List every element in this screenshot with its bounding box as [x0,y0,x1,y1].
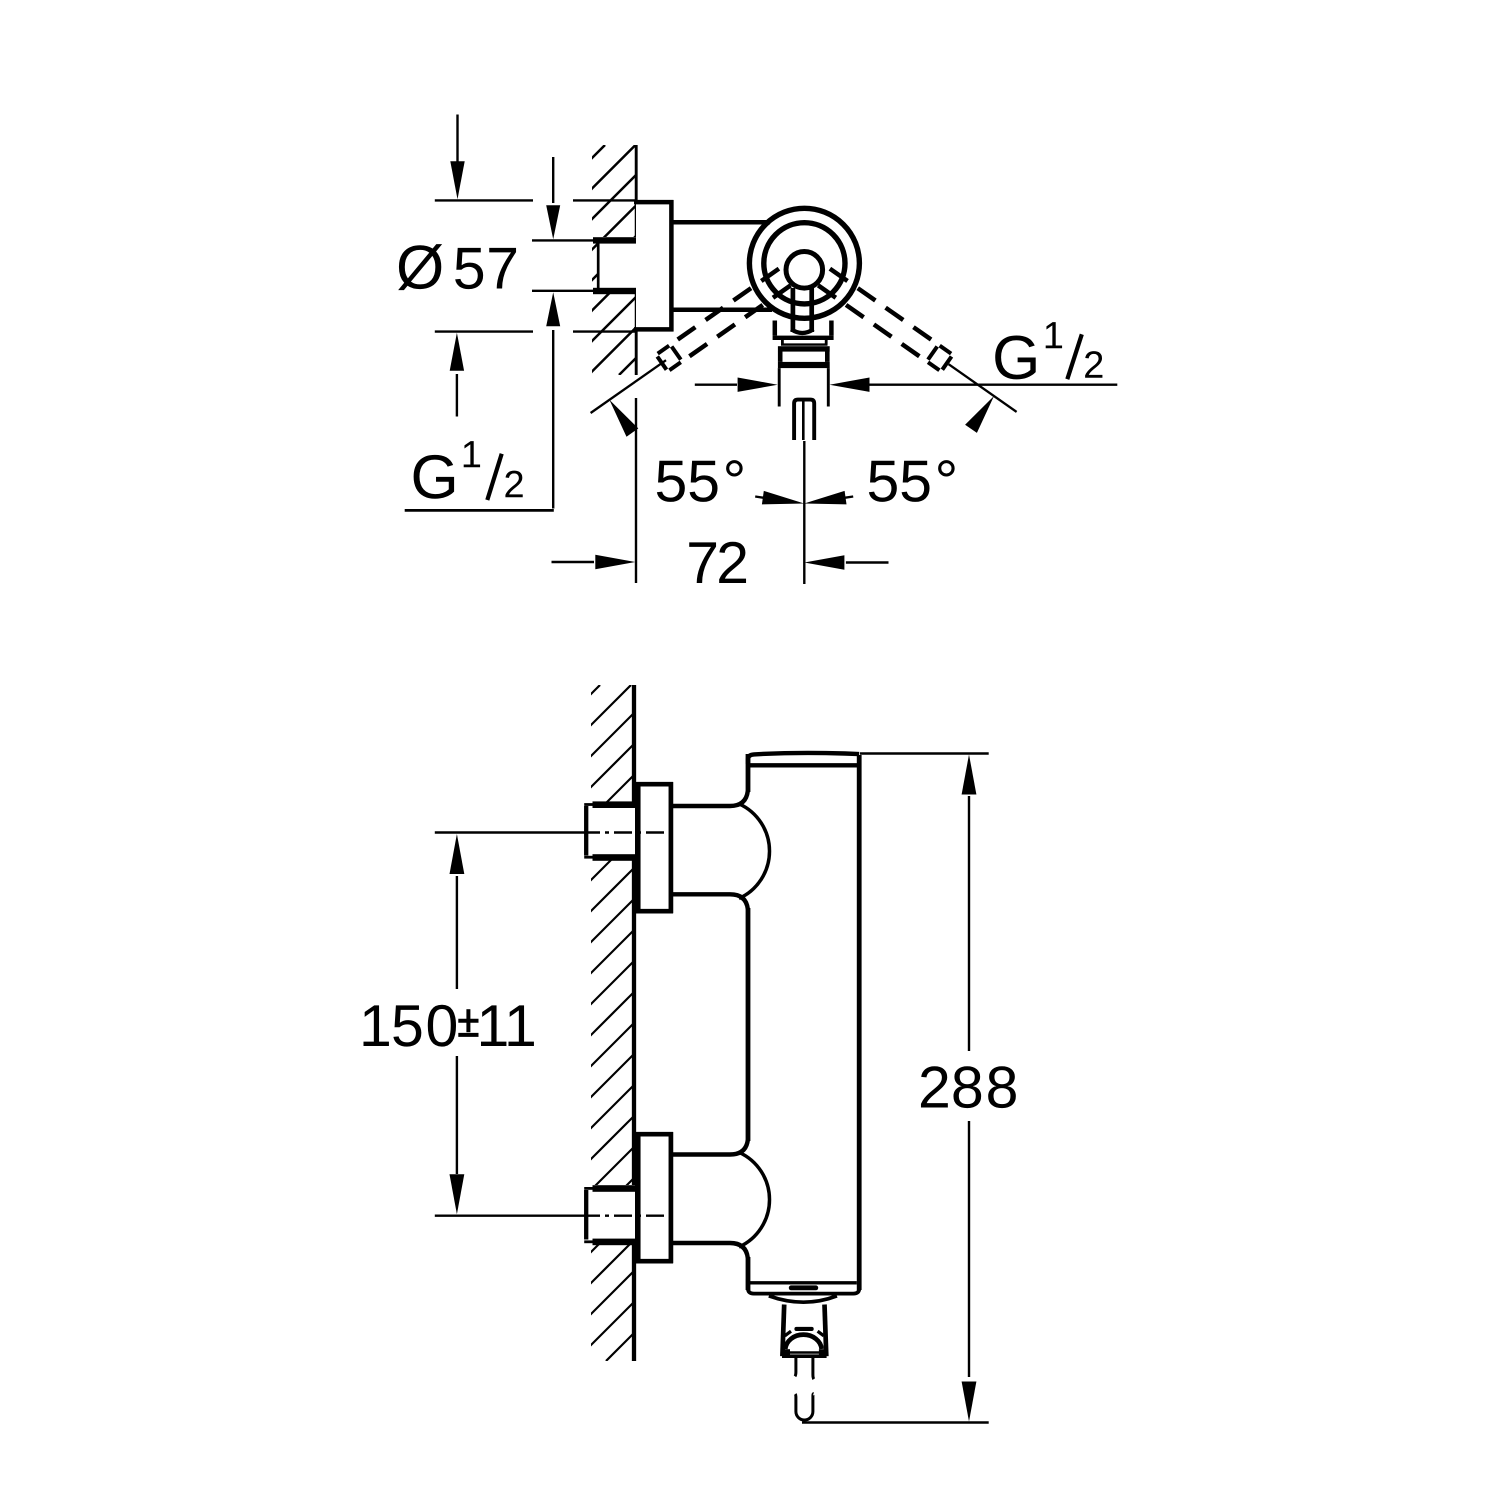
dashed lever position right 55° [818,269,951,371]
label Ø57 [398,244,516,290]
55° arrows at centerline [755,491,853,505]
valve body / spout collar (top view) [773,321,834,369]
right 55° arrow at axis [965,396,994,433]
wall union nipple (top view) [593,237,636,294]
dimension G1/2 wall thread lines [405,157,596,510]
dimension Ø57 lines and arrows [435,115,635,417]
upper union nipple (side view) [584,801,635,860]
wall hatch section (top view) [375,145,880,375]
outlet spout (side view) [769,1296,837,1357]
dimension G1/2 outlet line [695,378,1118,392]
dashed lever position left 55° [657,269,790,371]
label G1/2 left [414,441,523,500]
dimension 150±11 lines [435,833,672,1216]
outlet centerline [803,441,805,584]
label 55° left [657,460,743,502]
left lever axis line [591,360,666,413]
label 72 [689,542,746,583]
lower escutcheon flange (side view) [636,1132,673,1263]
label 150±11 [363,1005,533,1047]
mixer body cylinder (side view) [748,753,860,1294]
outlet pipe with break (side view) [795,1358,814,1421]
dimension 72 lines [552,398,889,583]
handle outer circle [749,208,859,318]
handle inner ring [764,223,845,304]
lever ball knob [786,251,823,288]
dimension 288 lines [802,754,989,1423]
lower union nipple (side view) [584,1185,635,1245]
right lever axis line [949,364,1017,412]
upper escutcheon flange (side view) [636,782,673,913]
outlet pipe G1/2 (top view) [779,368,828,406]
wall hatch section (side view) [0,685,1344,1361]
valve connection body (top view) [673,222,772,309]
lever arm neutral (top view) [791,288,813,333]
label 288 [921,1066,1016,1108]
escutcheon flange Ø57 (top view) [634,200,673,332]
lower connection waist and ball bulge [673,1140,770,1258]
upper connection waist and ball bulge [673,791,770,909]
wall surface line (side view) [632,685,636,1361]
outlet insert (top view) [794,400,814,440]
label G1/2 right [995,322,1102,379]
label 55° right [869,460,955,502]
wall surface line (top view) [635,145,638,375]
left 55° arrow at axis [609,400,638,437]
